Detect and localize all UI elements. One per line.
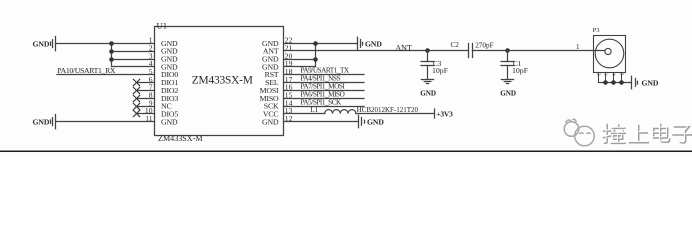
- no-connect X pin9: [133, 103, 139, 109]
- wire pin9 stub: [137, 106, 155, 108]
- wire pin6 stub: [137, 82, 155, 84]
- ground symbol P3 GND: [632, 76, 659, 89]
- no-connect X pin6: [133, 79, 139, 85]
- ground symbol left-bottom GND: [33, 115, 56, 129]
- inductor L1 designator: [310, 106, 318, 114]
- capacitor C3 stub top: [427, 51, 429, 62]
- inductor L1 coil: [325, 110, 356, 114]
- capacitor C2 plates: [469, 44, 473, 58]
- wire right bus vertical: [315, 44, 317, 67]
- svg-text:GND: GND: [161, 117, 178, 126]
- svg-text:P3: P3: [593, 27, 601, 34]
- svg-text:GND: GND: [500, 89, 516, 97]
- wire pin10 stub: [137, 113, 155, 115]
- no-connect X pin7: [133, 87, 139, 93]
- svg-text:PA5/SPI1_SCK: PA5/SPI1_SCK: [301, 99, 343, 107]
- svg-text:GND: GND: [367, 118, 384, 127]
- U1 left pin numbers: [145, 36, 153, 124]
- junction pin3 bus: [109, 57, 114, 62]
- ground symbol pin12 GND: [359, 115, 385, 128]
- junction pin1 bus: [109, 41, 114, 46]
- U1 left pin names: [161, 39, 178, 127]
- wire pin15: [284, 98, 365, 100]
- capacitor C1 stub bottom: [507, 66, 509, 80]
- wire pin12 to GND: [284, 121, 359, 123]
- svg-text:L1: L1: [310, 106, 318, 114]
- svg-text:U1: U1: [157, 21, 168, 31]
- svg-text:GND: GND: [262, 117, 279, 126]
- svg-text:ZM433SX-M: ZM433SX-M: [158, 134, 203, 143]
- wire pin8 stub: [137, 98, 155, 100]
- wire GND to pin1: [56, 43, 155, 45]
- wire pin19: [284, 66, 316, 68]
- U1 designator: [157, 21, 168, 31]
- capacitor C3 stub bottom: [427, 66, 429, 80]
- svg-text:PA9/USART1_TX: PA9/USART1_TX: [301, 67, 350, 75]
- svg-text:ANT: ANT: [395, 43, 412, 52]
- svg-text:PA10/USART1_RX: PA10/USART1_RX: [57, 66, 116, 75]
- capacitor C2 value 270pF: [475, 42, 493, 50]
- net label PA10/USART1_RX: [57, 66, 116, 75]
- net label ANT: [395, 43, 412, 52]
- svg-text:HCB2012KF-121T20: HCB2012KF-121T20: [357, 106, 419, 114]
- junction P3 pin4: [611, 80, 616, 85]
- svg-text:10pF: 10pF: [432, 66, 449, 75]
- junction pin22 bus: [313, 41, 318, 46]
- inductor L1 value HCB2012KF-121T20: [357, 106, 419, 114]
- wire pin22 to GND: [284, 43, 357, 45]
- svg-text:GND: GND: [365, 40, 382, 49]
- connector P3 body: [594, 36, 626, 73]
- wire pin18: [284, 74, 365, 76]
- junction ANT/C1: [505, 48, 510, 53]
- wire pin11: [56, 121, 155, 123]
- capacitor C3 designator: [433, 60, 442, 68]
- wire P3 shield bus: [599, 82, 632, 84]
- net label PA4/SPI1_NSS: [301, 75, 341, 83]
- svg-text:GND: GND: [33, 118, 50, 127]
- capacitor C1 designator: [513, 60, 522, 68]
- capacitor C3 value 10pF: [432, 66, 449, 75]
- svg-text:PA6/SPI1_MISO: PA6/SPI1_MISO: [301, 91, 345, 99]
- net label PA7/SPI1_MOSI: [301, 83, 346, 91]
- capacitor C2 designator: [451, 41, 460, 49]
- ground symbol C1 GND: [500, 80, 516, 98]
- connector P3 designator: [593, 27, 601, 34]
- net label PA6/SPI1_MISO: [301, 91, 345, 99]
- U1 value label ZM433SX-M: [158, 134, 203, 143]
- svg-text:PA4/SPI1_NSS: PA4/SPI1_NSS: [301, 75, 341, 83]
- svg-text:GND: GND: [420, 89, 436, 97]
- svg-text:GND: GND: [642, 78, 659, 87]
- junction P3 pin3: [603, 80, 608, 85]
- wire pin17: [284, 82, 365, 84]
- junction pin20 bus: [313, 57, 318, 62]
- U1 right pin numbers: [285, 36, 293, 124]
- no-connect X pin8: [133, 95, 139, 101]
- capacitor C1 stub top: [507, 51, 509, 62]
- ground symbol pin22 GND: [358, 37, 383, 50]
- junction P3 pin5: [619, 80, 624, 85]
- connector P3 pin1 number: [576, 43, 580, 51]
- wire L1 to +3V3: [356, 113, 435, 115]
- capacitor C1 plates: [501, 62, 514, 66]
- watermark text 撞上电子 (vector strokes): [603, 124, 692, 144]
- svg-text:PA7/SPI1_MOSI: PA7/SPI1_MOSI: [301, 83, 346, 91]
- connector P3 shield pin numbers: [597, 73, 625, 76]
- svg-text:ZM433SX-M: ZM433SX-M: [192, 74, 253, 86]
- capacitor C3 plates: [421, 62, 434, 66]
- capacitor C1 value 10pF: [512, 66, 529, 75]
- wire pin21 ANT net: [284, 50, 606, 52]
- svg-text:1: 1: [576, 43, 580, 51]
- no-connect X pin10: [133, 110, 139, 116]
- power port +3V3: [435, 109, 454, 118]
- junction ANT/C3: [425, 48, 430, 53]
- ground symbol C3 GND: [420, 80, 436, 98]
- svg-text:+3V3: +3V3: [436, 109, 453, 118]
- wire pin16: [284, 90, 365, 92]
- wire left bus vertical: [111, 44, 113, 67]
- svg-text:10pF: 10pF: [512, 66, 529, 75]
- svg-text:270pF: 270pF: [475, 42, 493, 50]
- watermark logo circles: [564, 119, 594, 145]
- ground symbol left-top GND: [33, 37, 56, 51]
- wire pin4: [112, 66, 155, 68]
- net label PA5/SPI1_SCK: [301, 99, 343, 107]
- IC U1 box: [155, 27, 284, 136]
- svg-text:GND: GND: [33, 40, 50, 49]
- U1 part name title: [192, 74, 253, 86]
- wire pin7 stub: [137, 90, 155, 92]
- wire pin3: [112, 59, 155, 61]
- U1 right pin names: [260, 39, 279, 127]
- wire pin2: [112, 51, 155, 53]
- wire pin5: [57, 74, 155, 76]
- bottom rule: [0, 151, 692, 153]
- wire pin20: [284, 59, 316, 61]
- wire pin13 to L1: [284, 113, 325, 115]
- svg-text:C2: C2: [451, 41, 460, 49]
- wire pin14: [284, 106, 365, 108]
- junction pin2 bus: [109, 49, 114, 54]
- connector P3 shield pins: [599, 73, 622, 83]
- net label PA9/USART1_TX: [301, 67, 350, 75]
